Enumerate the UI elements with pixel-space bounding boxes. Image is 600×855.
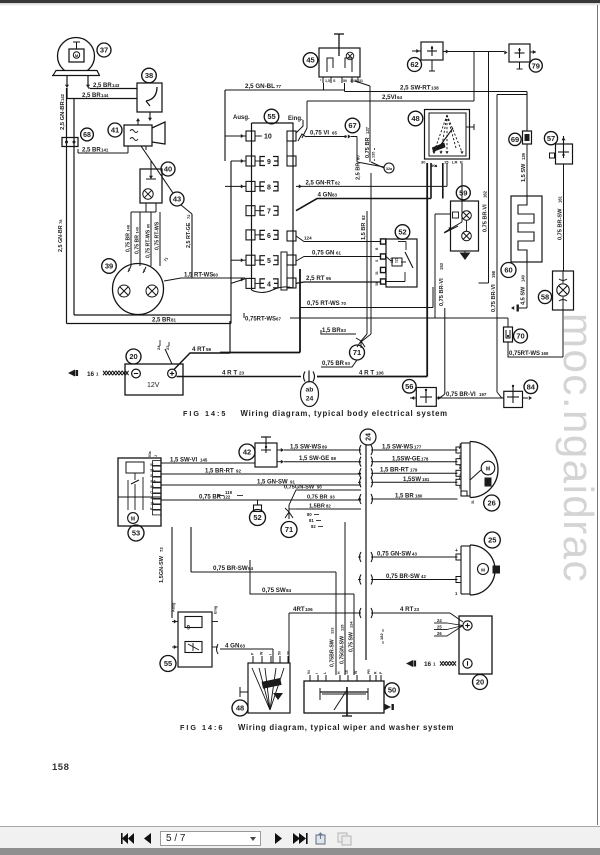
svg-text:1: 1 [455, 591, 458, 596]
svg-text:26: 26 [488, 499, 496, 508]
svg-text:82: 82 [326, 504, 331, 509]
svg-text:30: 30 [375, 282, 379, 286]
svg-text:0,75 GN-SW: 0,75 GN-SW [377, 552, 411, 558]
svg-text:1,5 RT-WS: 1,5 RT-WS [184, 273, 213, 279]
svg-text:115: 115 [340, 624, 345, 631]
svg-text:124: 124 [304, 236, 312, 241]
svg-text:4 GN: 4 GN [225, 643, 240, 650]
svg-text:4 GN: 4 GN [318, 192, 333, 199]
svg-text:0,75BR-SW: 0,75BR-SW [330, 639, 336, 667]
svg-text:4 RT: 4 RT [192, 346, 206, 353]
svg-text:30: 30 [287, 651, 291, 655]
svg-text:92: 92 [236, 469, 241, 474]
svg-text:•: • [320, 77, 322, 82]
svg-text:53e: 53e [459, 443, 463, 449]
svg-text:72: 72 [186, 214, 191, 219]
svg-text:W: W [150, 463, 153, 467]
svg-text:41: 41 [111, 126, 119, 135]
svg-text:60: 60 [213, 273, 218, 278]
svg-text:56: 56 [405, 382, 413, 391]
svg-text:25: 25 [488, 536, 496, 545]
svg-text:1,5 SW-WS: 1,5 SW-WS [290, 445, 321, 451]
svg-text:2,5 BR: 2,5 BR [152, 318, 171, 324]
svg-text:54: 54 [150, 485, 154, 489]
svg-text:31: 31 [471, 500, 475, 504]
svg-text:80: 80 [146, 224, 151, 228]
svg-text:161: 161 [558, 195, 563, 203]
svg-text:H: H [337, 671, 341, 674]
svg-text:57: 57 [547, 134, 555, 143]
svg-text:181: 181 [422, 477, 430, 482]
svg-text:2,5 GN-RT: 2,5 GN-RT [306, 181, 335, 187]
svg-text:2,5 GN-BL: 2,5 GN-BL [245, 83, 275, 90]
svg-text:W: W [354, 670, 358, 674]
svg-text:67: 67 [276, 317, 281, 322]
svg-text:1,5 BR-RT: 1,5 BR-RT [205, 469, 234, 475]
svg-text:0,75 BR-VI: 0,75 BR-VI [439, 278, 445, 306]
svg-text:79: 79 [532, 61, 540, 70]
svg-text:53: 53 [132, 529, 140, 538]
svg-text:1,5SW: 1,5SW [403, 477, 421, 483]
svg-text:1: 1 [96, 371, 99, 376]
svg-text:26: 26 [437, 631, 442, 636]
svg-text:59: 59 [459, 189, 467, 198]
svg-text:0,75 RT-WS: 0,75 RT-WS [307, 301, 340, 307]
svg-text:2,5 BR: 2,5 BR [82, 148, 101, 154]
svg-text:62: 62 [335, 181, 340, 186]
svg-text:94: 94 [248, 566, 254, 571]
svg-text:0,75 BR: 0,75 BR [365, 137, 371, 158]
svg-text:177: 177 [414, 445, 422, 450]
svg-text:80: 80 [307, 512, 312, 517]
svg-text:198: 198 [491, 270, 496, 278]
svg-text:FIG 14:6: FIG 14:6 [180, 723, 224, 732]
svg-text:PR: PR [367, 669, 371, 674]
svg-text:I: I [315, 673, 319, 674]
svg-text:135: 135 [372, 152, 376, 158]
svg-text:FIG 14:5: FIG 14:5 [183, 409, 227, 418]
svg-text:179: 179 [410, 468, 418, 473]
svg-text:6: 6 [267, 233, 271, 240]
svg-text:20: 20 [476, 678, 484, 687]
svg-text:65: 65 [332, 131, 337, 136]
svg-text:53a: 53a [148, 451, 152, 457]
svg-text:64: 64 [397, 95, 403, 100]
svg-text:24: 24 [437, 618, 442, 623]
svg-text:2,5 BR: 2,5 BR [82, 93, 101, 99]
svg-text:Eing: Eing [214, 605, 218, 614]
svg-text:I: I [269, 654, 273, 655]
svg-text:61: 61 [336, 251, 341, 256]
svg-text:b: b [150, 507, 152, 511]
svg-text:81: 81 [171, 318, 176, 323]
svg-text:40: 40 [164, 165, 172, 174]
svg-text:32a: 32a [386, 167, 393, 171]
svg-text:2,5VI: 2,5VI [382, 94, 397, 101]
svg-text:50: 50 [388, 686, 396, 695]
svg-text:45: 45 [306, 56, 314, 65]
svg-text:1: 1 [433, 662, 436, 667]
svg-text:31: 31 [375, 271, 379, 275]
svg-text:0,75 BR: 0,75 BR [322, 361, 345, 367]
svg-text:42: 42 [243, 448, 251, 457]
svg-text:82: 82 [311, 524, 316, 529]
svg-text:P: P [379, 671, 383, 674]
svg-text:Eing.: Eing. [288, 116, 303, 122]
svg-text:137: 137 [365, 126, 370, 134]
svg-text:Wiring diagram, typical wiper: Wiring diagram, typical wiper and washer… [238, 723, 454, 732]
svg-text:1,5 BR: 1,5 BR [361, 223, 367, 240]
svg-text:S: S [150, 474, 152, 478]
svg-text:2,5 BR: 2,5 BR [356, 163, 362, 180]
svg-text:52: 52 [253, 513, 261, 522]
svg-text:31: 31 [150, 496, 154, 500]
svg-text:0,75 BR: 0,75 BR [126, 233, 132, 252]
svg-text:5: 5 [267, 258, 271, 265]
svg-text:38: 38 [145, 71, 153, 80]
svg-text:31: 31 [459, 485, 463, 489]
svg-text:39: 39 [105, 262, 113, 271]
svg-text:+: + [455, 548, 458, 554]
svg-text:0,75 VI: 0,75 VI [310, 131, 329, 137]
svg-text:2,5 RT: 2,5 RT [306, 275, 325, 282]
svg-text:1,5BR: 1,5BR [309, 504, 325, 510]
svg-text:55: 55 [164, 659, 172, 668]
svg-text:2,5 GN-BR: 2,5 GN-BR [60, 101, 66, 130]
svg-text:114: 114 [349, 621, 354, 628]
svg-text:1,5 BR: 1,5 BR [322, 328, 341, 334]
svg-text:0,75 BR: 0,75 BR [135, 235, 141, 254]
svg-text:25: 25 [437, 625, 442, 630]
svg-text:59: 59 [206, 347, 212, 352]
svg-text:RE: RE [459, 464, 463, 469]
svg-text:31b: 31b [150, 480, 156, 484]
svg-text:53: 53 [459, 455, 463, 459]
svg-text:160: 160 [541, 351, 549, 356]
svg-text:178: 178 [421, 457, 429, 462]
svg-text:149: 149 [135, 226, 140, 233]
svg-text:69: 69 [511, 135, 519, 144]
svg-text:Ausg: Ausg [172, 602, 176, 612]
svg-text:138: 138 [431, 86, 439, 91]
svg-text:0,75 GN: 0,75 GN [312, 251, 334, 257]
svg-text:122: 122 [395, 257, 399, 263]
svg-text:88: 88 [331, 456, 336, 461]
svg-text:139: 139 [521, 152, 526, 160]
svg-text:81: 81 [309, 518, 314, 523]
svg-text:148: 148 [126, 224, 131, 231]
svg-text:143: 143 [112, 83, 120, 88]
svg-text:0,75GN-SW: 0,75GN-SW [284, 485, 315, 491]
svg-text:71: 71 [285, 525, 293, 534]
svg-text:ab: ab [306, 387, 314, 394]
svg-text:15: 15 [150, 502, 154, 506]
svg-text:182: 182 [379, 633, 384, 640]
svg-text:2,5 BR: 2,5 BR [93, 83, 112, 89]
svg-text:4: 4 [267, 281, 271, 288]
svg-text:197: 197 [479, 392, 487, 397]
svg-text:W: W [260, 651, 264, 655]
svg-text:145: 145 [200, 458, 208, 463]
svg-text:82: 82 [361, 215, 366, 220]
svg-text:162: 162 [483, 190, 488, 198]
svg-text:0,75 SW: 0,75 SW [262, 587, 286, 594]
svg-text:1,5GN-SW: 1,5GN-SW [159, 555, 165, 583]
svg-text:0,75 BR-VI: 0,75 BR-VI [446, 392, 476, 398]
svg-text:0,75 BR: 0,75 BR [199, 495, 222, 501]
svg-text:68: 68 [83, 132, 91, 139]
svg-text:1,5SW-GE: 1,5SW-GE [392, 457, 421, 463]
svg-text:93: 93 [345, 361, 350, 366]
svg-text:Ausg.: Ausg. [233, 115, 250, 121]
svg-text:48: 48 [411, 114, 419, 123]
svg-text:P: P [251, 652, 255, 655]
svg-text:144: 144 [101, 93, 109, 98]
svg-text:48: 48 [236, 704, 244, 713]
svg-text:113: 113 [330, 627, 335, 634]
svg-text:58: 58 [541, 293, 549, 302]
svg-text:0,75 RT-WS: 0,75 RT-WS [146, 229, 152, 258]
svg-text:42: 42 [421, 574, 426, 579]
svg-text:R: R [374, 671, 378, 674]
svg-text:0,75 BR-SW: 0,75 BR-SW [213, 565, 248, 572]
svg-text:S: S [333, 79, 336, 83]
svg-text:95: 95 [326, 276, 332, 281]
svg-text:12V: 12V [147, 382, 160, 389]
svg-text:J: J [154, 455, 158, 457]
svg-text:1,5 SW-GE: 1,5 SW-GE [299, 456, 329, 462]
svg-text:15: 15 [444, 160, 449, 165]
svg-text:106: 106 [376, 371, 384, 376]
svg-text:6: 6 [186, 623, 190, 629]
svg-text:4RT: 4RT [293, 606, 305, 613]
svg-text:1,5 BR-RT: 1,5 BR-RT [380, 468, 409, 474]
svg-text:63: 63 [240, 644, 246, 649]
svg-text:16: 16 [424, 661, 432, 668]
svg-text:1,5 BR: 1,5 BR [395, 494, 414, 500]
svg-text:67: 67 [348, 121, 356, 130]
svg-text:24: 24 [306, 396, 314, 403]
svg-text:73: 73 [159, 547, 164, 552]
svg-text:60: 60 [356, 155, 361, 160]
svg-text:89: 89 [322, 445, 327, 450]
svg-text:16: 16 [87, 371, 95, 378]
svg-text:142: 142 [60, 93, 65, 101]
svg-text:0,75 BR-SW: 0,75 BR-SW [558, 208, 564, 240]
svg-text:7: 7 [267, 209, 271, 216]
svg-text:LR: LR [452, 160, 457, 165]
svg-text:0,75 RT-WS: 0,75 RT-WS [155, 221, 161, 250]
svg-text:84: 84 [527, 383, 536, 392]
svg-text:55: 55 [267, 112, 275, 121]
svg-text:15: 15 [345, 670, 349, 674]
svg-text:24: 24 [366, 433, 373, 441]
svg-text:119: 119 [390, 257, 394, 263]
svg-text:90: 90 [317, 485, 322, 490]
svg-text:4 RT: 4 RT [400, 606, 414, 613]
svg-text:1,5 SW-WS: 1,5 SW-WS [382, 445, 413, 451]
svg-text:23: 23 [414, 607, 420, 612]
svg-text:77: 77 [276, 84, 282, 89]
svg-text:60: 60 [504, 266, 512, 275]
svg-text:70: 70 [516, 332, 524, 341]
svg-text:141: 141 [101, 148, 109, 153]
svg-text:2,5 SW-RT: 2,5 SW-RT [400, 85, 431, 92]
svg-text:S: S [375, 259, 379, 262]
svg-text:4,5 SW: 4,5 SW [521, 286, 527, 305]
svg-text:23: 23 [239, 371, 245, 376]
svg-text:37: 37 [100, 46, 108, 55]
svg-text:0,75 BR-SW: 0,75 BR-SW [386, 574, 420, 580]
svg-text:106: 106 [305, 607, 313, 612]
svg-text:0,75 BR-VI: 0,75 BR-VI [483, 204, 489, 232]
svg-text:9: 9 [267, 159, 271, 166]
svg-text:50: 50 [278, 651, 282, 655]
svg-text:2,5 GN-BR: 2,5 GN-BR [58, 225, 64, 252]
svg-text:0,75 BR-VI: 0,75 BR-VI [491, 284, 497, 312]
svg-text:0,75RT-WS: 0,75RT-WS [509, 351, 540, 357]
svg-text:43: 43 [412, 552, 417, 557]
svg-text:83: 83 [341, 328, 346, 333]
svg-text:B: B [375, 247, 379, 250]
svg-text:1,5 SW-VI: 1,5 SW-VI [170, 458, 198, 464]
svg-text:50: 50 [343, 79, 347, 83]
svg-text:M: M [481, 567, 485, 572]
svg-text:153: 153 [439, 262, 444, 270]
svg-text:10: 10 [264, 134, 272, 141]
svg-text:180: 180 [415, 494, 423, 499]
svg-text:71: 71 [163, 255, 170, 262]
svg-text:78: 78 [58, 219, 63, 224]
svg-text:4 R T: 4 R T [359, 370, 374, 377]
svg-text:122: 122 [223, 495, 231, 500]
svg-text:1,5: 1,5 [325, 79, 330, 83]
svg-text:71: 71 [353, 348, 361, 357]
svg-text:0,75 SW: 0,75 SW [349, 632, 355, 652]
svg-text:63: 63 [332, 193, 338, 198]
svg-text:Wiring diagram, typical body e: Wiring diagram, typical body electrical … [241, 409, 448, 418]
svg-text:140: 140 [521, 274, 526, 282]
svg-text:53a: 53a [459, 473, 463, 479]
svg-text:8: 8 [267, 184, 271, 191]
svg-text:93: 93 [330, 495, 335, 500]
svg-text:2,5 RT-GE: 2,5 RT-GE [186, 222, 192, 248]
svg-text:0,75 BR: 0,75 BR [307, 495, 328, 501]
svg-text:M: M [486, 467, 490, 473]
svg-text:54: 54 [307, 670, 311, 674]
svg-text:70: 70 [341, 301, 346, 306]
svg-text:M: M [131, 517, 135, 523]
svg-text:62: 62 [410, 60, 418, 69]
svg-text:20: 20 [129, 352, 137, 361]
svg-text:1,5 SW: 1,5 SW [521, 163, 527, 182]
svg-text:0,75RT-WS: 0,75RT-WS [245, 317, 276, 323]
svg-text:43: 43 [173, 195, 181, 204]
svg-text:L: L [323, 672, 327, 674]
svg-text:30: 30 [421, 160, 426, 165]
svg-text:53: 53 [150, 469, 154, 473]
svg-text:52: 52 [398, 228, 406, 237]
svg-text:84: 84 [286, 588, 292, 593]
svg-text:4 R T: 4 R T [222, 370, 237, 377]
